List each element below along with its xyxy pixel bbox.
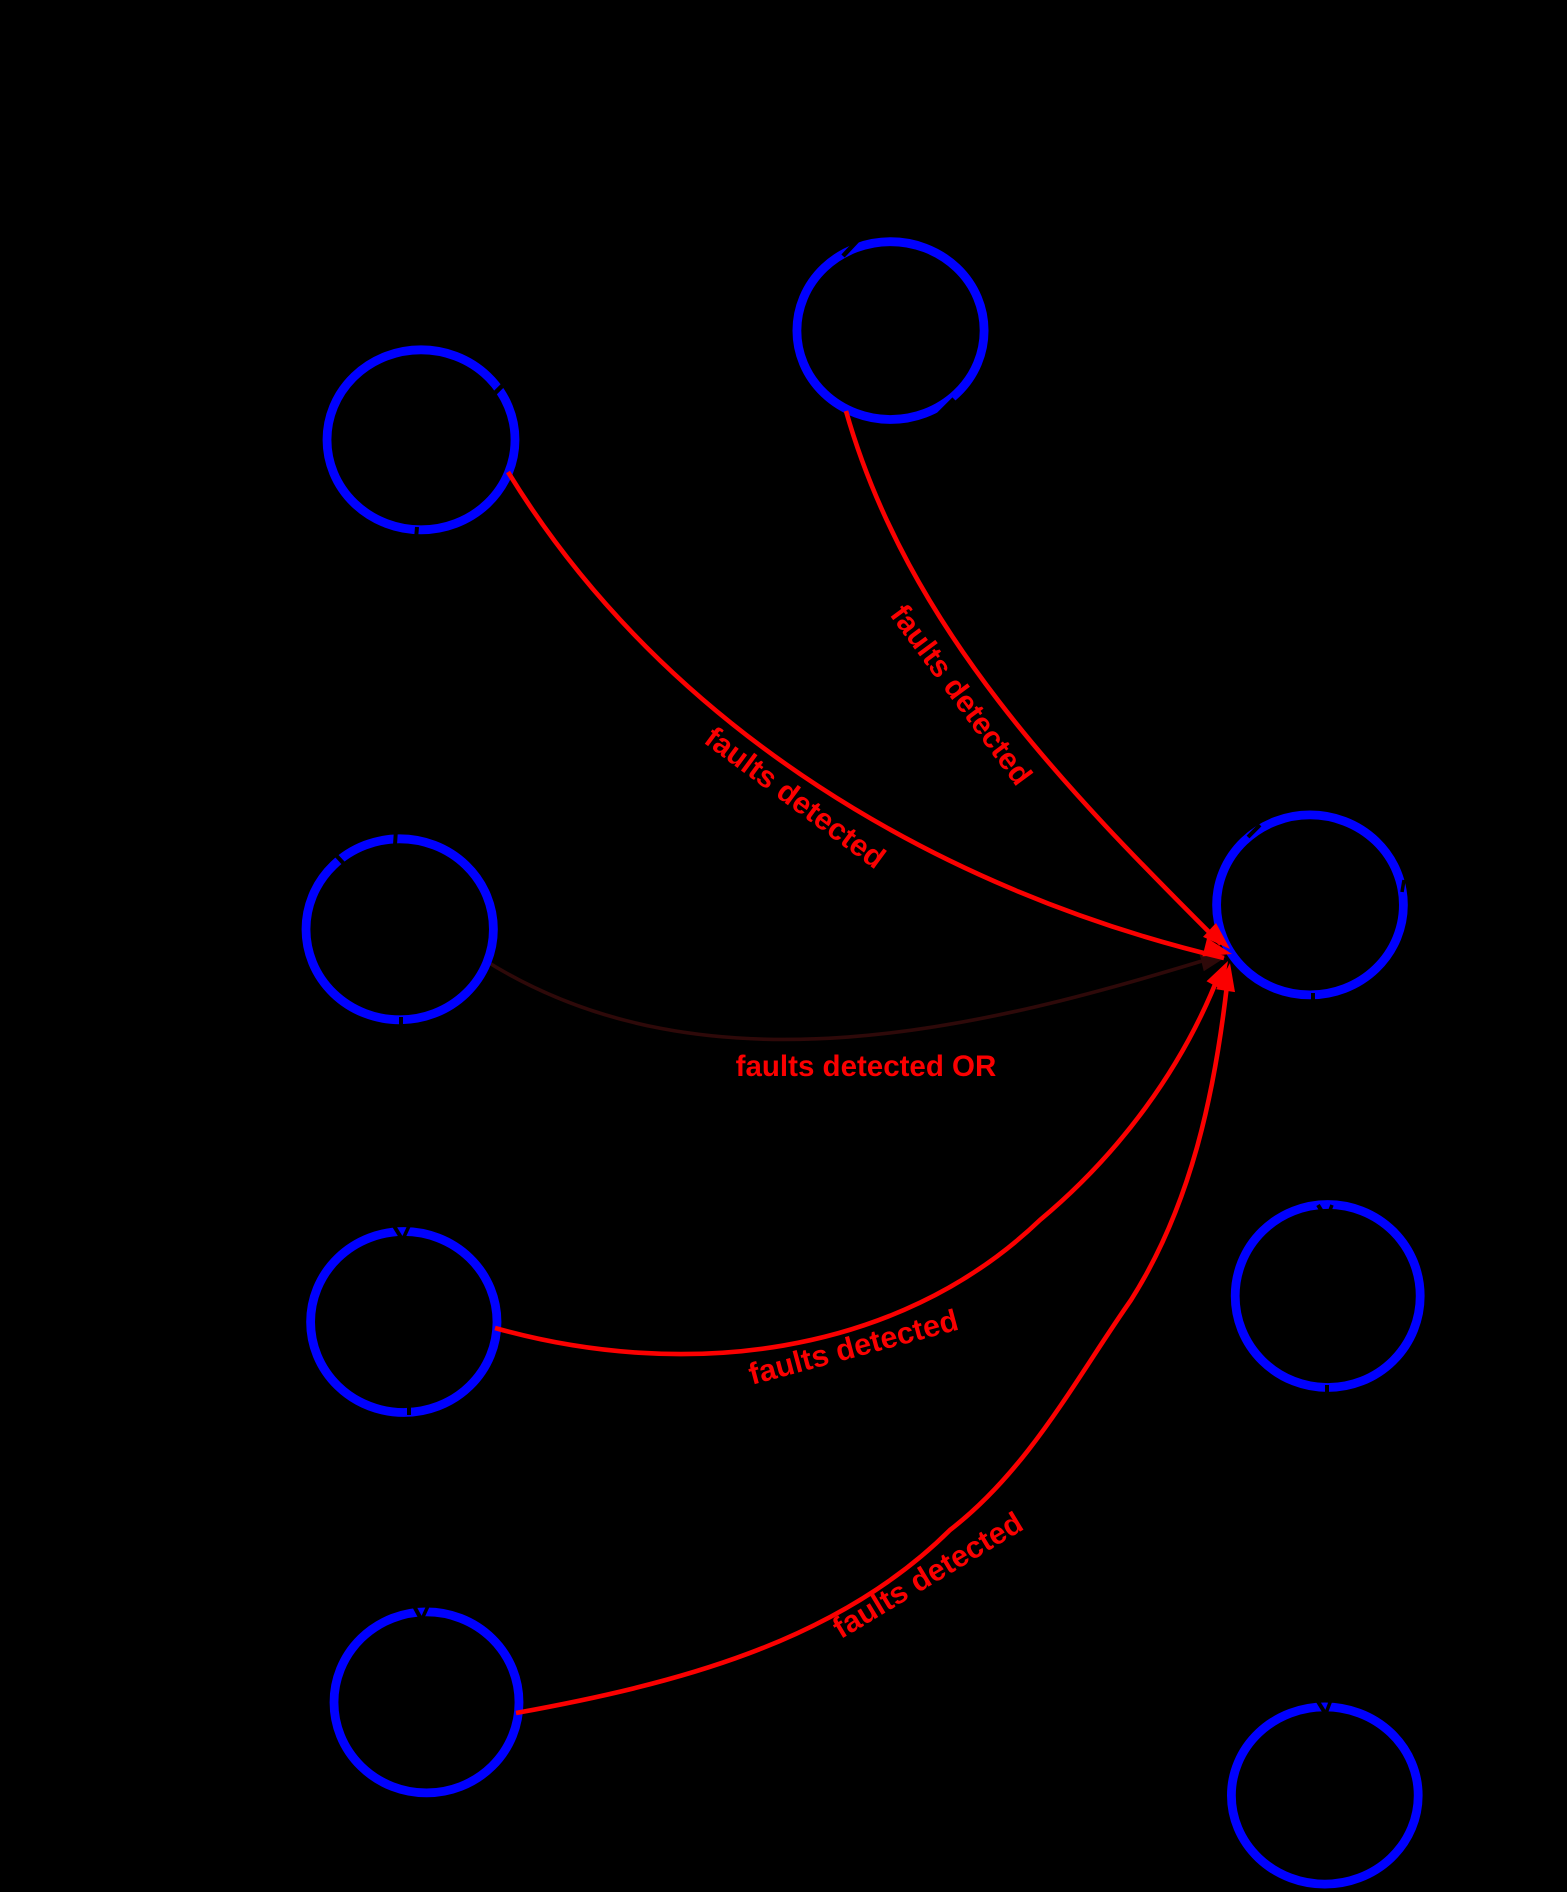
notch S6 right slit	[1402, 880, 1404, 892]
black notch ticks over node rings (arrow contacts of invisible black edges)	[333, 240, 1404, 1713]
notch S6 bottom tick	[1311, 993, 1315, 1005]
arrowhead A	[1203, 923, 1230, 949]
notch S2 upper-right slit	[491, 382, 506, 397]
notch S5 top V left	[414, 1606, 421, 1619]
notch S7 bottom tick	[1325, 1385, 1329, 1397]
notch S5 top V right	[422, 1606, 428, 1619]
arrowhead C (dark red)	[1200, 955, 1226, 972]
notch S1 upper-left slit	[843, 240, 858, 256]
edge E: S5 -> S6 faults detected	[516, 985, 1227, 1713]
notch S3 upper-left slit	[333, 852, 345, 865]
arrowhead B	[1203, 938, 1233, 956]
state node S1 (top)	[797, 242, 984, 420]
state node S8 (right bottom)	[1231, 1707, 1418, 1884]
state node S7 (right lower)	[1235, 1205, 1420, 1388]
notch S7 top V right	[1327, 1205, 1332, 1218]
state node S5 (bottom left)	[334, 1612, 519, 1793]
notch S1 lower-right slit	[939, 399, 954, 414]
edge A: S1 -> S6 faults detected	[846, 411, 1221, 944]
notch S4 bottom tick	[407, 1404, 411, 1415]
notch S8 top V left	[1317, 1700, 1325, 1713]
arrowhead D	[1207, 961, 1229, 990]
edge B: S2 -> S6 faults detected	[508, 472, 1224, 958]
notch S7 top V left	[1318, 1205, 1326, 1218]
state node S2 (upper left)	[327, 350, 515, 530]
notch S8 top V right	[1326, 1700, 1331, 1713]
svg-text:faults detected OR: faults detected OR	[736, 1050, 997, 1083]
notch S3 top slit	[395, 829, 396, 845]
state node S6 (right middle, edge target)	[1217, 815, 1404, 995]
state node S4 (lower middle left)	[311, 1232, 497, 1413]
notch S2 bottom tick	[416, 527, 417, 539]
arrowhead E	[1216, 963, 1235, 992]
notch S4 top V right	[403, 1226, 409, 1239]
edge C: S3 -> S6 "faults detected OR" (dark red, drawn beneath)	[486, 957, 1215, 1039]
notch S4 top V left	[394, 1226, 402, 1239]
edge D: S4 -> S6 faults detected	[495, 972, 1220, 1354]
notch S3 bottom tick	[399, 1017, 403, 1029]
state node S3 (middle left)	[306, 839, 493, 1020]
notch S6 upper-left slit	[1248, 825, 1260, 837]
